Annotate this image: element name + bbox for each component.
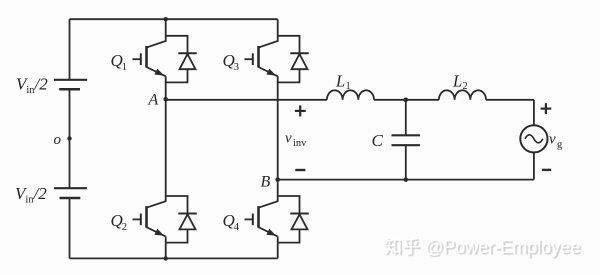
diode D2 (anti-parallel) <box>166 196 197 243</box>
junction dot C bottom <box>404 177 409 182</box>
wire node B line to vg <box>278 179 534 181</box>
svg-text:L: L <box>335 72 345 91</box>
svg-text:B: B <box>261 173 271 190</box>
svg-text:L: L <box>452 72 462 91</box>
transistor Q2 (IGBT) <box>133 99 166 236</box>
wire Q4 emitter to bottom rail <box>277 237 279 259</box>
wire vg bottom lead <box>533 152 535 179</box>
svg-text:C: C <box>372 131 384 150</box>
node o <box>67 136 71 140</box>
svg-text:1: 1 <box>122 62 127 73</box>
svg-text:2: 2 <box>122 222 127 233</box>
ac source vg <box>520 125 547 152</box>
svg-text:inv: inv <box>293 138 307 149</box>
inductor L2 <box>439 90 486 100</box>
node A <box>163 97 168 102</box>
svg-text:4: 4 <box>234 222 240 233</box>
svg-text:Vin/2: Vin/2 <box>15 184 47 206</box>
inductor L1 <box>327 90 374 100</box>
svg-text:3: 3 <box>234 62 239 73</box>
capacitor C <box>392 135 421 145</box>
label + of vg <box>541 103 552 114</box>
svg-text:A: A <box>148 91 159 108</box>
diode D4 (anti-parallel) <box>278 196 309 243</box>
wire left dc bus upper <box>69 19 71 80</box>
wire L2 to vg <box>486 99 534 101</box>
transistor Q1 (IGBT) <box>133 19 166 76</box>
wire left dc bus lower <box>69 198 71 258</box>
svg-text:o: o <box>54 132 62 148</box>
wire Q2 emitter to bottom rail <box>165 237 167 259</box>
transistor Q3 (IGBT) <box>245 19 278 76</box>
wire capacitor C top lead <box>405 100 407 136</box>
svg-text:g: g <box>557 140 563 151</box>
wire bottom dc rail <box>70 257 278 259</box>
transistor Q4 (IGBT) <box>245 180 278 237</box>
label + of vinv <box>295 105 306 116</box>
diode D3 (anti-parallel) <box>278 36 309 83</box>
wire vg top lead <box>533 100 535 125</box>
svg-text:1: 1 <box>346 81 351 92</box>
wire L1 to C node <box>374 99 439 101</box>
wire Q3 emitter to node B <box>277 76 279 179</box>
junction dot top rail / Q1 collector <box>164 17 168 21</box>
svg-text:Vin/2: Vin/2 <box>16 75 48 97</box>
wire battery to node o <box>69 89 71 188</box>
diode D1 (anti-parallel) <box>166 36 197 83</box>
junction dot bottom rail / Q2 emitter <box>164 256 168 260</box>
wire top dc rail <box>70 18 278 20</box>
svg-text:v: v <box>549 132 556 148</box>
junction dot C top <box>404 98 409 103</box>
svg-text:2: 2 <box>463 81 468 92</box>
watermark 知乎 @Power-Employee <box>384 233 580 259</box>
svg-text:v: v <box>285 131 292 147</box>
voltage source Vin/2 lower (battery) <box>54 188 87 198</box>
wire capacitor C bottom lead <box>405 145 407 179</box>
wire Q1 emitter to node A <box>165 76 167 99</box>
wire node A to L1 <box>166 98 327 101</box>
label - of vinv <box>295 169 305 171</box>
voltage source Vin/2 upper (battery) <box>54 80 87 89</box>
label - of vg <box>542 169 551 171</box>
node B <box>275 177 280 182</box>
